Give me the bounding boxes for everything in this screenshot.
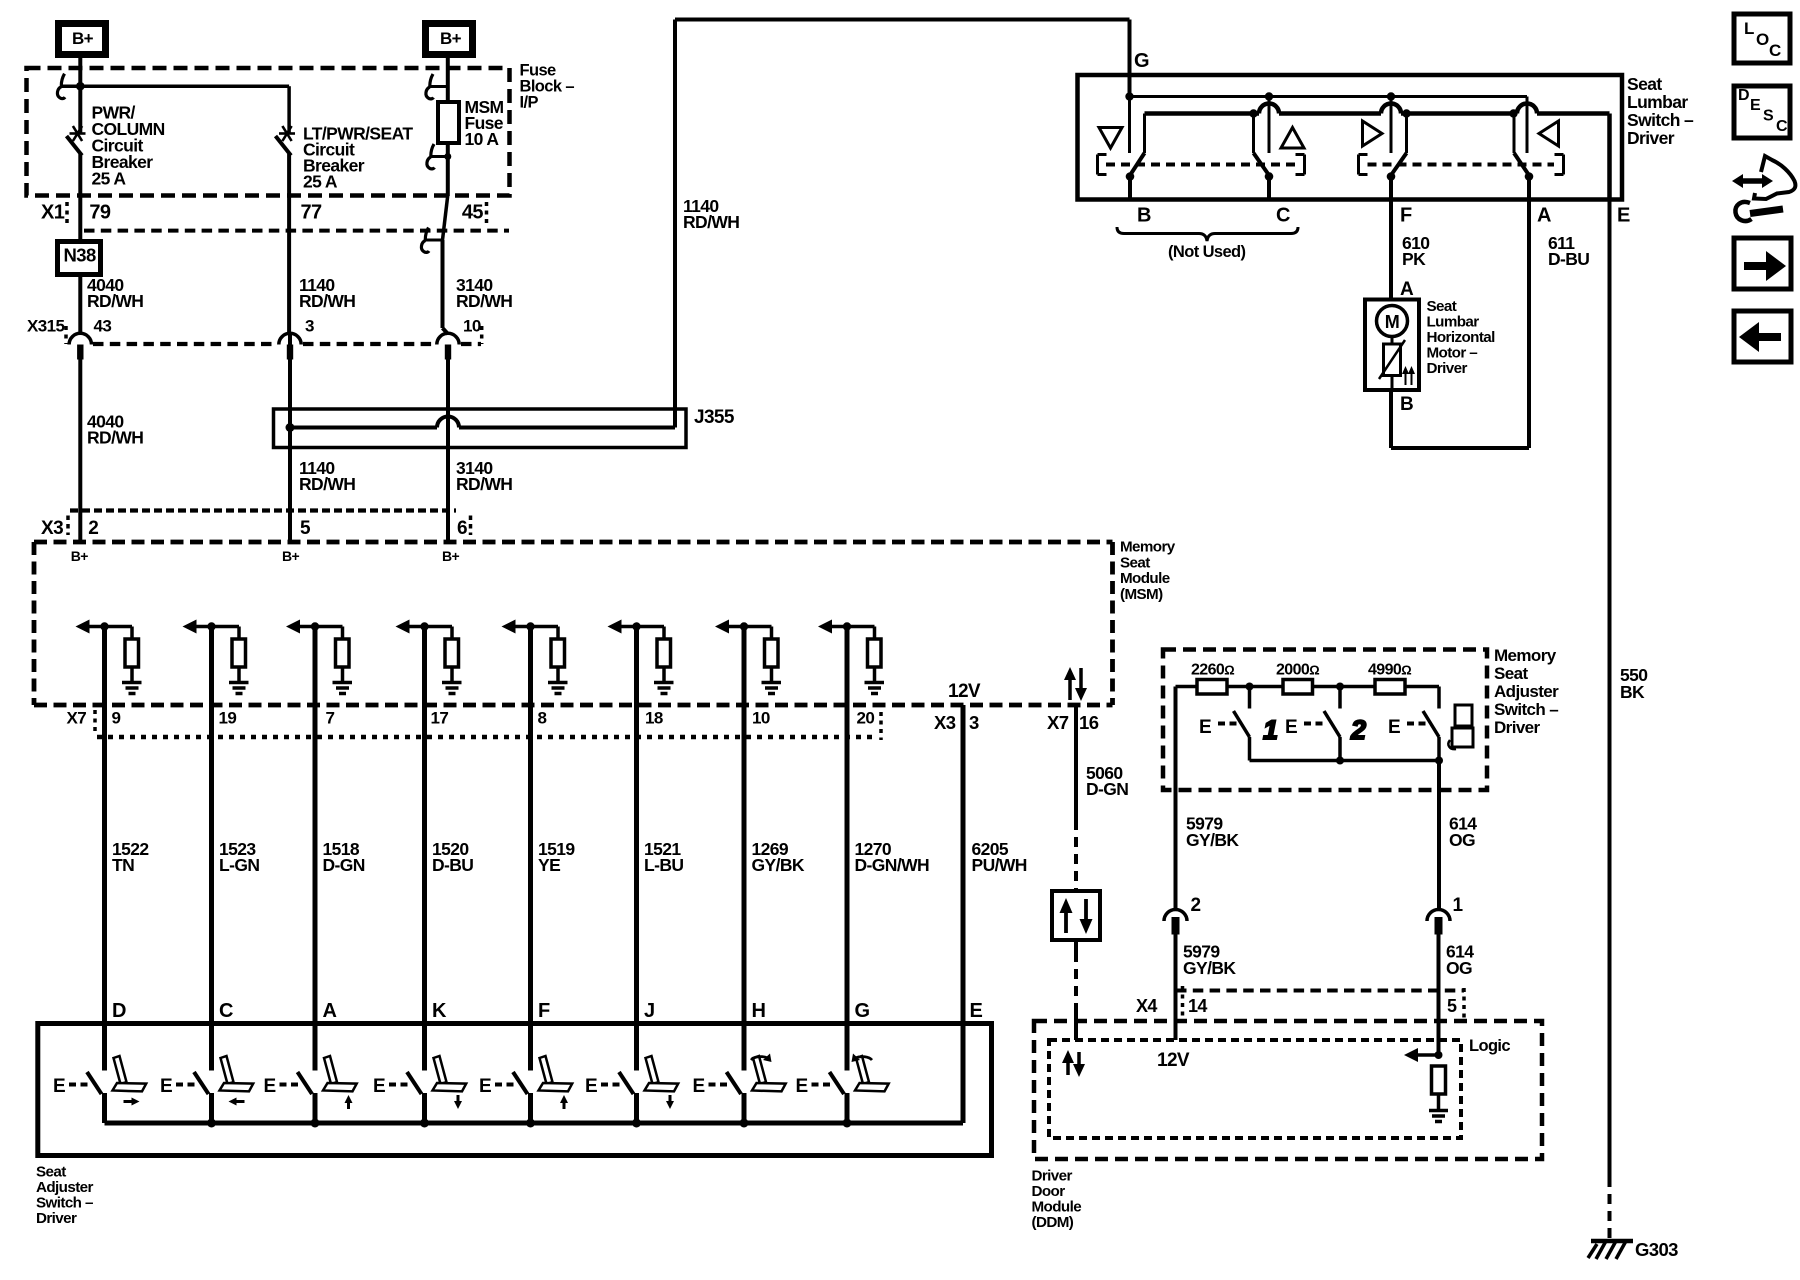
- svg-text:25 A: 25 A: [92, 169, 127, 189]
- svg-text:8: 8: [538, 709, 547, 728]
- svg-text:RD/WH: RD/WH: [683, 212, 739, 232]
- svg-text:10: 10: [463, 317, 481, 336]
- svg-text:9: 9: [112, 709, 121, 728]
- svg-text:2: 2: [1191, 895, 1201, 916]
- svg-text:(Not Used): (Not Used): [1168, 243, 1246, 261]
- svg-text:4990Ω: 4990Ω: [1368, 662, 1411, 679]
- svg-text:Switch –: Switch –: [36, 1195, 93, 1212]
- svg-text:E: E: [693, 1076, 705, 1097]
- svg-text:E: E: [1750, 97, 1761, 114]
- svg-text:J: J: [644, 1000, 655, 1022]
- svg-text:O: O: [1756, 30, 1769, 49]
- svg-text:7: 7: [326, 709, 335, 728]
- svg-text:Seat: Seat: [1120, 554, 1150, 571]
- svg-text:K: K: [432, 1000, 447, 1022]
- svg-text:L-GN: L-GN: [219, 855, 259, 875]
- svg-text:(MSM): (MSM): [1120, 586, 1163, 603]
- svg-text:17: 17: [431, 709, 449, 728]
- svg-text:Driver: Driver: [36, 1210, 77, 1227]
- svg-text:12V: 12V: [1157, 1050, 1190, 1071]
- svg-text:G: G: [1134, 50, 1149, 72]
- svg-text:Adjuster: Adjuster: [1494, 682, 1559, 701]
- svg-text:Logic: Logic: [1469, 1037, 1510, 1055]
- svg-text:C: C: [1276, 205, 1290, 227]
- svg-text:E: E: [479, 1076, 491, 1097]
- svg-text:E: E: [1617, 205, 1630, 227]
- svg-text:I/P: I/P: [520, 94, 539, 112]
- svg-text:12V: 12V: [948, 681, 981, 702]
- svg-text:M: M: [1385, 312, 1399, 332]
- svg-text:A: A: [1400, 279, 1414, 300]
- svg-text:L-BU: L-BU: [644, 855, 683, 875]
- svg-text:43: 43: [94, 317, 112, 336]
- svg-text:F: F: [1400, 205, 1412, 227]
- svg-text:3: 3: [969, 712, 979, 733]
- svg-text:18: 18: [645, 709, 663, 728]
- svg-text:79: 79: [89, 202, 111, 224]
- svg-text:Horizontal: Horizontal: [1427, 329, 1496, 346]
- svg-text:TN: TN: [112, 855, 134, 875]
- svg-text:D-BU: D-BU: [432, 855, 473, 875]
- svg-text:RD/WH: RD/WH: [87, 291, 143, 311]
- svg-text:1: 1: [1263, 715, 1277, 745]
- svg-text:B+: B+: [282, 548, 300, 564]
- svg-text:BK: BK: [1620, 682, 1645, 702]
- svg-text:Switch –: Switch –: [1494, 700, 1558, 719]
- svg-text:E: E: [160, 1076, 172, 1097]
- svg-text:OG: OG: [1449, 830, 1475, 850]
- svg-text:E: E: [1199, 717, 1211, 738]
- svg-text:G: G: [855, 1000, 870, 1022]
- svg-text:5: 5: [1447, 996, 1457, 1016]
- svg-text:10 A: 10 A: [465, 129, 500, 149]
- svg-text:Driver: Driver: [1032, 1168, 1073, 1185]
- svg-text:X315: X315: [27, 317, 64, 336]
- svg-text:B: B: [1137, 205, 1151, 227]
- svg-text:2260Ω: 2260Ω: [1191, 662, 1234, 679]
- svg-text:X4: X4: [1136, 996, 1157, 1016]
- svg-text:D-BU: D-BU: [1548, 249, 1589, 269]
- svg-text:B+: B+: [72, 29, 94, 48]
- svg-text:C: C: [219, 1000, 233, 1022]
- svg-text:77: 77: [301, 202, 323, 224]
- svg-text:J355: J355: [694, 407, 735, 428]
- svg-text:RD/WH: RD/WH: [456, 291, 512, 311]
- svg-text:D: D: [1738, 87, 1749, 104]
- svg-text:45: 45: [462, 202, 484, 224]
- svg-text:E: E: [264, 1076, 276, 1097]
- svg-text:PK: PK: [1402, 249, 1426, 269]
- svg-text:Motor –: Motor –: [1427, 345, 1478, 362]
- svg-text:B+: B+: [440, 29, 462, 48]
- svg-text:10: 10: [752, 709, 770, 728]
- svg-text:Module: Module: [1032, 1199, 1082, 1216]
- svg-text:E: E: [53, 1076, 65, 1097]
- svg-text:1: 1: [1453, 895, 1464, 916]
- svg-text:S: S: [1763, 108, 1774, 125]
- svg-text:D: D: [112, 1000, 126, 1022]
- svg-text:Driver: Driver: [1427, 360, 1468, 377]
- svg-text:OG: OG: [1446, 958, 1472, 978]
- svg-text:Seat: Seat: [36, 1164, 66, 1181]
- svg-text:N38: N38: [64, 245, 96, 266]
- svg-text:Switch –: Switch –: [1627, 110, 1694, 130]
- svg-text:X7: X7: [67, 709, 87, 728]
- svg-text:Adjuster: Adjuster: [36, 1179, 93, 1196]
- svg-text:RD/WH: RD/WH: [87, 428, 143, 448]
- svg-text:E: E: [796, 1076, 808, 1097]
- svg-text:GY/BK: GY/BK: [752, 855, 805, 875]
- svg-text:(DDM): (DDM): [1032, 1214, 1074, 1231]
- svg-text:B+: B+: [442, 548, 460, 564]
- svg-text:L: L: [1744, 19, 1754, 38]
- svg-text:14: 14: [1188, 996, 1207, 1016]
- svg-text:2: 2: [1350, 715, 1366, 745]
- svg-text:PU/WH: PU/WH: [972, 855, 1027, 875]
- svg-text:E: E: [585, 1076, 597, 1097]
- svg-text:RD/WH: RD/WH: [299, 474, 355, 494]
- svg-text:Seat: Seat: [1494, 664, 1528, 683]
- svg-text:16: 16: [1079, 712, 1099, 733]
- svg-text:20: 20: [857, 709, 875, 728]
- svg-text:Lumbar: Lumbar: [1627, 92, 1688, 112]
- svg-text:D-GN/WH: D-GN/WH: [855, 855, 930, 875]
- svg-text:E: E: [1388, 717, 1400, 738]
- svg-text:19: 19: [219, 709, 237, 728]
- svg-text:Memory: Memory: [1120, 539, 1176, 556]
- svg-text:Driver: Driver: [1627, 128, 1675, 148]
- svg-text:Seat: Seat: [1427, 298, 1457, 315]
- svg-text:Module: Module: [1120, 570, 1170, 587]
- svg-text:25 A: 25 A: [303, 172, 338, 192]
- svg-text:A: A: [323, 1000, 337, 1022]
- svg-text:6: 6: [457, 518, 467, 539]
- svg-text:X3: X3: [934, 712, 956, 733]
- svg-text:2: 2: [88, 518, 98, 539]
- svg-text:GY/BK: GY/BK: [1186, 830, 1239, 850]
- svg-text:2000Ω: 2000Ω: [1276, 662, 1319, 679]
- svg-text:Lumbar: Lumbar: [1427, 314, 1480, 331]
- svg-text:B+: B+: [71, 548, 89, 564]
- svg-text:Door: Door: [1032, 1183, 1066, 1200]
- svg-text:GY/BK: GY/BK: [1183, 958, 1236, 978]
- svg-text:F: F: [538, 1000, 550, 1022]
- svg-text:D-GN: D-GN: [1086, 779, 1128, 799]
- svg-text:C: C: [1769, 41, 1781, 60]
- svg-text:Memory: Memory: [1494, 646, 1557, 665]
- svg-text:H: H: [752, 1000, 766, 1022]
- svg-text:C: C: [1776, 118, 1788, 135]
- svg-text:A: A: [1537, 205, 1551, 227]
- svg-text:3: 3: [305, 317, 314, 336]
- svg-text:X7: X7: [1047, 712, 1069, 733]
- svg-text:G303: G303: [1635, 1239, 1678, 1260]
- svg-text:Seat: Seat: [1627, 74, 1662, 94]
- svg-text:E: E: [970, 1000, 983, 1022]
- svg-text:E: E: [1285, 717, 1297, 738]
- svg-text:X1: X1: [41, 202, 65, 224]
- svg-text:X3: X3: [41, 518, 63, 539]
- svg-text:D-GN: D-GN: [323, 855, 365, 875]
- svg-text:YE: YE: [538, 855, 560, 875]
- svg-text:RD/WH: RD/WH: [299, 291, 355, 311]
- svg-text:Driver: Driver: [1494, 718, 1541, 737]
- svg-text:B: B: [1400, 394, 1413, 415]
- svg-text:E: E: [373, 1076, 385, 1097]
- svg-text:RD/WH: RD/WH: [456, 474, 512, 494]
- svg-text:5: 5: [300, 518, 311, 539]
